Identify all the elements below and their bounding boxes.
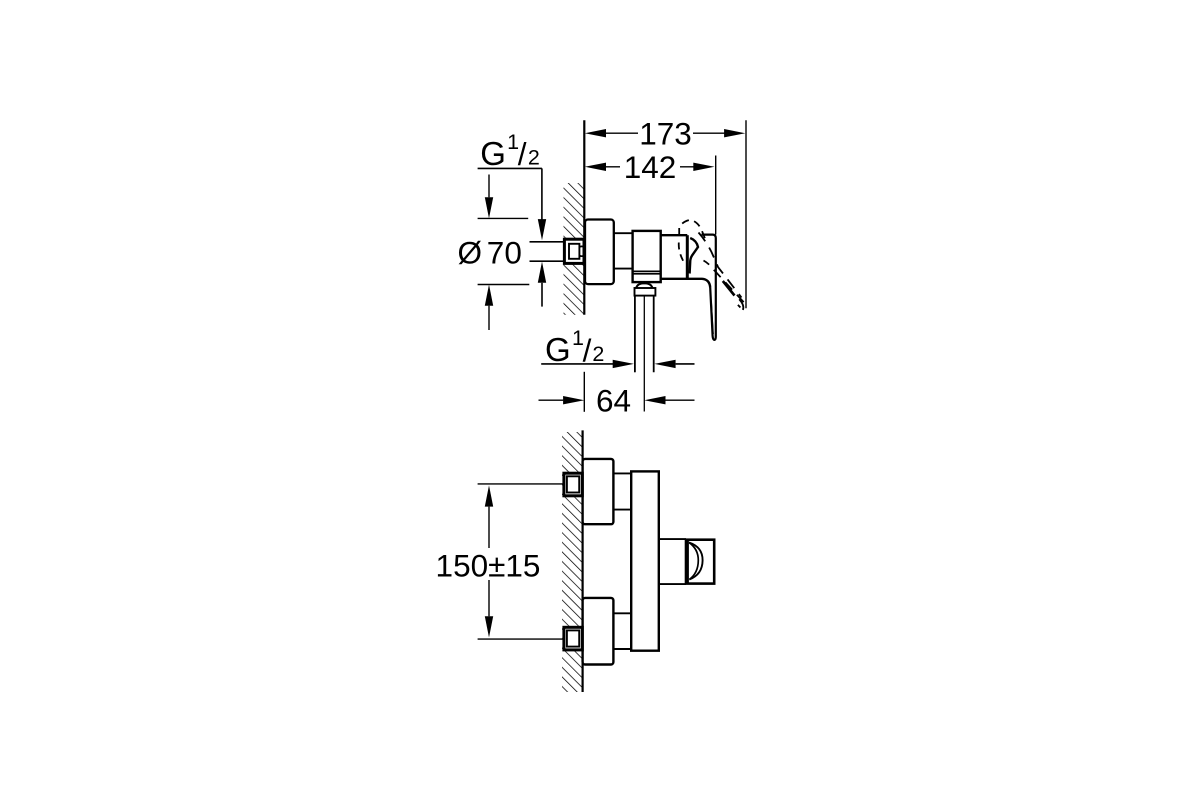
lower neck connector bbox=[613, 613, 631, 649]
upper G1/2 wall fitting (front view) bbox=[564, 473, 582, 496]
open lever dashed top edge bbox=[699, 233, 742, 298]
svg-text:70: 70 bbox=[487, 235, 522, 271]
lower G1/2 wall fitting (front view) bbox=[564, 627, 582, 650]
dimension 64 line and arrows bbox=[539, 396, 695, 404]
dimension Ø70 extension lines bbox=[478, 218, 530, 284]
knob crescent arcs bbox=[689, 543, 703, 580]
upper supply elbow bbox=[583, 459, 614, 524]
lower supply elbow bbox=[583, 598, 614, 665]
cartridge housing block bbox=[633, 231, 661, 282]
wall face line (top view) bbox=[583, 120, 585, 314]
handle swing dashed arc bbox=[679, 220, 706, 242]
svg-text:2: 2 bbox=[592, 342, 604, 366]
outlet pipe centerline bbox=[643, 297, 645, 412]
svg-text:173: 173 bbox=[639, 115, 692, 151]
open lever inner thick segment bbox=[723, 281, 735, 296]
dimension 142 line and arrows bbox=[585, 163, 715, 171]
G 1/2 top leader line bbox=[478, 168, 547, 306]
G 1/2 top label bbox=[480, 130, 540, 172]
svg-text:Ø: Ø bbox=[458, 235, 483, 271]
dimension 173 line and arrows bbox=[585, 129, 746, 137]
open lever tip hook bbox=[739, 299, 743, 310]
lever blade inner line bbox=[711, 302, 713, 334]
open lever dashed bottom edge bbox=[704, 261, 744, 303]
neck between flange and cartridge bbox=[614, 233, 632, 268]
main body bar (front view) bbox=[631, 471, 659, 650]
G1/2 wall fitting (top view) bbox=[564, 239, 586, 263]
dimension 142 extension line (right) bbox=[715, 156, 717, 235]
svg-text:2: 2 bbox=[528, 146, 540, 170]
dimension 173 extension line (right) bbox=[745, 120, 747, 308]
svg-text:G: G bbox=[545, 331, 571, 368]
dimension 64 extension line (wall) bbox=[583, 372, 585, 412]
svg-text:G: G bbox=[480, 135, 506, 172]
wall face line (front view) bbox=[581, 430, 583, 692]
dimension 150±15 extension ticks bbox=[478, 484, 565, 639]
outlet dome collar bbox=[636, 283, 652, 288]
outlet pipe bbox=[635, 296, 654, 373]
cartridge bottom internal line bbox=[633, 270, 661, 272]
dimension Ø70 line and arrows bbox=[485, 175, 493, 331]
outlet nut bbox=[635, 288, 656, 296]
svg-text:64: 64 bbox=[596, 383, 631, 419]
knob left edge line bbox=[687, 540, 689, 583]
svg-text:/: / bbox=[518, 136, 527, 172]
G 1/2 bottom leader and arrows bbox=[541, 360, 694, 368]
handle base (side view) bbox=[661, 235, 711, 287]
svg-text:150±15: 150±15 bbox=[436, 548, 541, 584]
lever (closed position, side view) bbox=[702, 235, 716, 340]
supply pipe stub (top view) bbox=[530, 242, 567, 261]
escutcheon flange (side view) bbox=[585, 220, 614, 285]
dimension 150±15 line and arrows bbox=[485, 485, 493, 637]
wall hatching (front view) bbox=[562, 432, 583, 692]
upper neck connector bbox=[613, 473, 631, 509]
lever stem contour (solid curve) bbox=[690, 238, 698, 274]
ball dashed arc inside cartridge bbox=[679, 243, 684, 262]
handle knob (front view) bbox=[686, 540, 714, 584]
handle neck (front view) bbox=[659, 539, 686, 584]
G 1/2 bottom label bbox=[545, 326, 604, 369]
svg-text:142: 142 bbox=[624, 149, 677, 185]
wall hatching (top view) bbox=[564, 183, 585, 315]
